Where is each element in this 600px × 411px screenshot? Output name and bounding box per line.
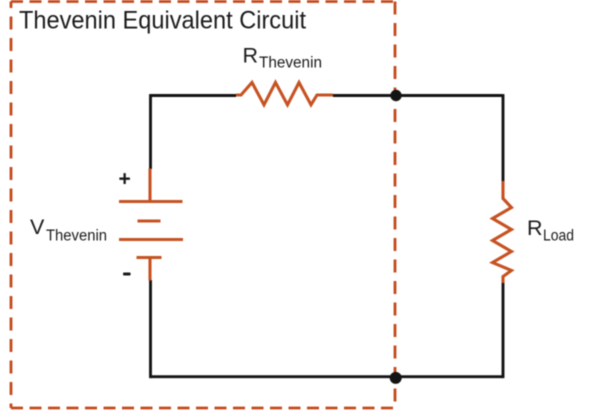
svg-text:Thevenin: Thevenin <box>259 55 322 72</box>
wire right vertical (top) <box>502 94 505 181</box>
svg-text:Thevenin Equivalent Circuit: Thevenin Equivalent Circuit <box>19 7 306 35</box>
minus terminal label <box>123 273 131 276</box>
wire top-left to resistor <box>150 94 236 97</box>
wire bottom <box>150 375 503 378</box>
svg-text:Thevenin: Thevenin <box>46 228 107 245</box>
svg-text:Load: Load <box>543 228 574 245</box>
node A (top junction dot) <box>390 90 401 101</box>
svg-text:+: + <box>119 168 131 191</box>
wire resistor to top-right corner <box>333 94 503 97</box>
wire left vertical (top) <box>149 94 152 169</box>
svg-text:V: V <box>30 215 45 239</box>
svg-text:R: R <box>527 216 543 240</box>
battery V_Thevenin <box>119 169 183 281</box>
dashed boundary box (Thevenin equivalent region) <box>11 2 395 409</box>
resistor R_Load <box>493 181 512 283</box>
node B (bottom junction dot) <box>390 372 402 384</box>
svg-text:R: R <box>243 44 259 68</box>
wire left vertical (bottom) <box>149 280 152 378</box>
resistor R_Thevenin <box>236 83 333 105</box>
wire right vertical (bottom) <box>502 282 505 378</box>
